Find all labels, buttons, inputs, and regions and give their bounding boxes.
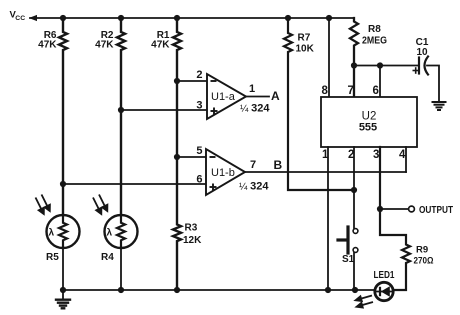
svg-text:6: 6 bbox=[373, 85, 379, 97]
svg-text:1: 1 bbox=[322, 149, 329, 161]
svg-text:R7: R7 bbox=[298, 33, 311, 44]
svg-text:R8: R8 bbox=[368, 24, 381, 35]
svg-text:10K: 10K bbox=[296, 44, 315, 55]
svg-text:5: 5 bbox=[196, 145, 202, 157]
svg-text:4: 4 bbox=[399, 149, 406, 161]
svg-text:¼ 324: ¼ 324 bbox=[240, 103, 270, 115]
svg-text:R5: R5 bbox=[46, 252, 59, 263]
svg-text:S1: S1 bbox=[342, 254, 355, 265]
svg-text:12K: 12K bbox=[183, 235, 202, 246]
svg-text:λ: λ bbox=[49, 228, 55, 239]
svg-text:1: 1 bbox=[249, 83, 255, 95]
svg-text:47K: 47K bbox=[38, 40, 57, 51]
svg-text:8: 8 bbox=[322, 85, 329, 97]
svg-text:¼ 324: ¼ 324 bbox=[239, 181, 269, 193]
svg-text:2MEG: 2MEG bbox=[362, 36, 387, 47]
svg-text:OUTPUT: OUTPUT bbox=[419, 205, 453, 216]
svg-text:U1-a: U1-a bbox=[211, 91, 236, 103]
svg-text:3: 3 bbox=[373, 149, 379, 161]
svg-text:R9: R9 bbox=[416, 245, 428, 256]
svg-text:555: 555 bbox=[359, 122, 377, 134]
svg-text:LED1: LED1 bbox=[374, 270, 395, 281]
svg-text:U1-b: U1-b bbox=[211, 167, 235, 179]
svg-text:CC: CC bbox=[15, 15, 25, 22]
svg-text:270Ω: 270Ω bbox=[414, 256, 434, 267]
svg-text:R3: R3 bbox=[185, 223, 198, 234]
svg-text:2: 2 bbox=[348, 149, 354, 161]
svg-text:2: 2 bbox=[196, 69, 202, 81]
svg-text:47K: 47K bbox=[95, 40, 114, 51]
svg-text:λ: λ bbox=[107, 228, 113, 239]
svg-text:A: A bbox=[271, 89, 280, 103]
svg-text:3: 3 bbox=[196, 100, 202, 112]
svg-text:R4: R4 bbox=[101, 252, 114, 263]
svg-text:B: B bbox=[274, 158, 283, 172]
svg-text:10: 10 bbox=[416, 47, 428, 58]
svg-text:7: 7 bbox=[250, 159, 256, 171]
svg-text:7: 7 bbox=[348, 85, 354, 97]
svg-text:6: 6 bbox=[196, 174, 202, 186]
svg-text:47K: 47K bbox=[151, 40, 170, 51]
